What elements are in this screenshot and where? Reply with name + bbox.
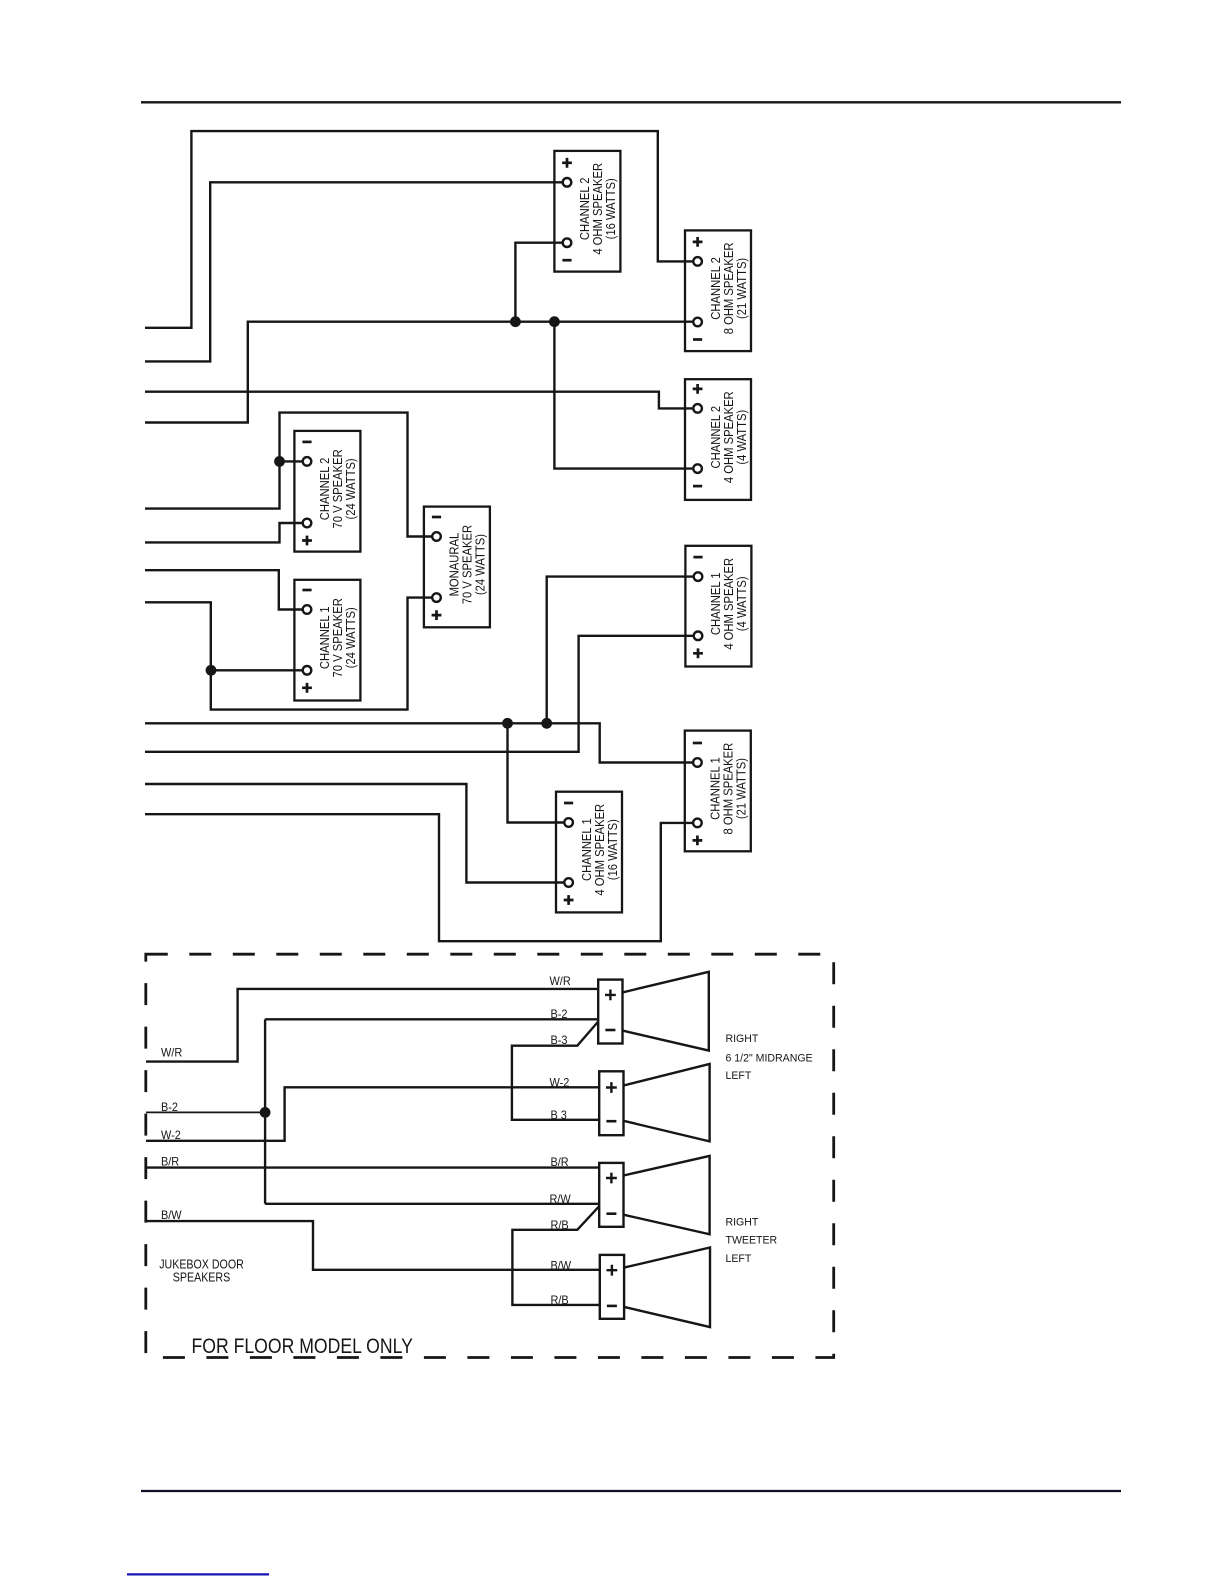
- terminals of speaker CHANNEL 1 4-ohm 16W: [564, 818, 573, 827]
- svg-text:B-2: B-2: [551, 1009, 568, 1021]
- svg-text:B/R: B/R: [551, 1157, 569, 1169]
- terminals of speaker CHANNEL 2 4-ohm 4W: [693, 404, 702, 413]
- speaker CHANNEL 2 4-ohm 16W: [554, 151, 620, 272]
- speaker CHANNEL 1 4-ohm 4W: [685, 546, 751, 667]
- svg-text:RIGHT: RIGHT: [726, 1033, 759, 1045]
- svg-text:LEFT: LEFT: [726, 1252, 752, 1264]
- svg-text:(24 WATTS): (24 WATTS): [343, 458, 358, 519]
- wire W8: amp out to MONAURAL + terminal: [145, 598, 437, 710]
- node J3: [274, 456, 285, 467]
- wire B/W to tweeter left +: [146, 1221, 600, 1270]
- node J5: [502, 718, 513, 729]
- speaker CHANNEL 1 70V 24W: [294, 580, 360, 701]
- svg-text:R/B: R/B: [551, 1220, 569, 1232]
- left wire labels: [161, 1047, 182, 1222]
- svg-text:B/R: B/R: [161, 1156, 179, 1168]
- svg-text:B/W: B/W: [551, 1260, 572, 1272]
- dashed enclosure FOR FLOOR MODEL ONLY: [146, 954, 834, 1357]
- wire B/R to tweeter right +: [146, 1166, 599, 1168]
- svg-text:W/R: W/R: [161, 1047, 182, 1059]
- terminals of speaker CHANNEL 1 70V 24W: [303, 605, 312, 614]
- wire W-2 to midrange left +: [146, 1087, 599, 1141]
- wire R/B link tweeter right - to tweeter left -: [512, 1205, 600, 1305]
- node J1: [510, 316, 521, 327]
- wire W5a: J3 branch to CH2 70V - terminal: [280, 460, 308, 462]
- svg-text:W/R: W/R: [550, 976, 571, 988]
- terminals of speaker CHANNEL 2 8-ohm 21W: [693, 257, 702, 266]
- svg-text:(24 WATTS): (24 WATTS): [473, 534, 488, 595]
- svg-text:W-2: W-2: [550, 1077, 570, 1089]
- svg-text:(24 WATTS): (24 WATTS): [343, 607, 358, 668]
- terminals of speaker CHANNEL 1 4-ohm 4W: [694, 572, 703, 581]
- speaker CHANNEL 1 8-ohm 21W: [685, 731, 751, 852]
- wire W7: amp out to CH1 70V - terminal: [145, 570, 307, 609]
- wire W/R to midrange right +: [146, 989, 598, 1062]
- svg-text:RIGHT: RIGHT: [726, 1216, 759, 1228]
- svg-text:(21 WATTS): (21 WATTS): [734, 758, 749, 819]
- wire W4: amp out to CH2 4W + terminal: [145, 392, 698, 409]
- wire W2: amp out to CH2 16W + terminal: [145, 182, 567, 361]
- wire R/W to tweeter right -: [265, 1203, 599, 1205]
- wire W10: amp out to CH1 4W + terminal: [145, 636, 698, 752]
- terminals of speaker MONAURAL 70V 24W: [432, 532, 441, 541]
- speaker position captions: [726, 1033, 813, 1265]
- svg-text:R/W: R/W: [550, 1194, 572, 1206]
- top horizontal rule: [141, 101, 1121, 103]
- wire W1: amp out to CH2 8-ohm + terminal: [145, 131, 698, 328]
- svg-text:(16 WATTS): (16 WATTS): [603, 178, 618, 239]
- wire B-2 to midrange right -: [265, 1018, 598, 1020]
- svg-text:TWEETER: TWEETER: [726, 1234, 778, 1246]
- wire W9a: J5 branch to CH1 16W - terminal: [508, 723, 569, 822]
- speaker CHANNEL 2 8-ohm 21W: [685, 230, 751, 351]
- wire W3: amp out to CH2 8-ohm - terminal: [145, 322, 698, 423]
- wire W3a: J1 branch to CH2 16W - terminal: [515, 243, 567, 322]
- wire W12: amp out to CH1 8-ohm + terminal: [145, 814, 697, 941]
- horn driver tweeter left: [600, 1248, 710, 1328]
- terminals of speaker CHANNEL 2 4-ohm 16W: [563, 178, 572, 187]
- bottom horizontal rule: [141, 1490, 1121, 1492]
- svg-text:R/B: R/B: [551, 1295, 569, 1307]
- wire W9b: J6 branch to CH1 4W - terminal: [547, 577, 698, 724]
- svg-text:6 1/2" MIDRANGE: 6 1/2" MIDRANGE: [726, 1052, 813, 1064]
- wire W11: amp out to CH1 16W + terminal: [145, 784, 569, 883]
- wire B-2 vertical riser: [264, 1019, 266, 1204]
- speaker CHANNEL 1 4-ohm 16W: [556, 792, 622, 913]
- horn driver midrange right: [598, 972, 709, 1051]
- svg-text:LEFT: LEFT: [726, 1069, 752, 1081]
- speaker CHANNEL 2 70V 24W: [294, 431, 360, 552]
- svg-text:SPEAKERS: SPEAKERS: [173, 1269, 230, 1284]
- footnote blue rule: [127, 1573, 269, 1575]
- wire B-3 link midrange right - to midrange left -: [512, 1021, 599, 1120]
- horn driver midrange left: [599, 1064, 709, 1142]
- node J4: [206, 665, 217, 676]
- svg-text:B-2: B-2: [161, 1102, 178, 1114]
- caption JUKEBOX DOOR SPEAKERS: [159, 1257, 244, 1285]
- wire W3b: J2 branch to CH2 4W - terminal: [554, 322, 697, 469]
- right wire labels: [550, 976, 572, 1307]
- wire B-2 left stub to J7: [146, 1111, 265, 1113]
- node J7: B-2 junction: [260, 1107, 271, 1118]
- speaker MONAURAL 70V 24W: [424, 507, 490, 628]
- wire W5: amp out loop to MONAURAL - terminal: [145, 413, 437, 537]
- svg-text:(21 WATTS): (21 WATTS): [734, 258, 749, 319]
- svg-text:B/W: B/W: [161, 1210, 182, 1222]
- speaker CHANNEL 2 4-ohm 4W: [685, 379, 751, 500]
- wire W8a: J4 branch to CH1 70V + terminal: [211, 669, 307, 671]
- terminals of speaker CHANNEL 1 8-ohm 21W: [693, 758, 702, 767]
- horn driver tweeter right: [599, 1156, 709, 1234]
- node J2: [549, 316, 560, 327]
- wire W6: amp out to CH2 70V + terminal: [145, 523, 307, 542]
- svg-text:(4 WATTS): (4 WATTS): [734, 410, 749, 465]
- svg-text:(16 WATTS): (16 WATTS): [605, 819, 620, 880]
- svg-text:(4 WATTS): (4 WATTS): [734, 576, 749, 631]
- svg-text:B 3: B 3: [551, 1110, 567, 1122]
- wire W9: amp out to CH1 8-ohm - terminal: [145, 723, 697, 762]
- terminals of speaker CHANNEL 2 70V 24W: [303, 457, 312, 466]
- node J6: [541, 718, 552, 729]
- svg-text:B-3: B-3: [551, 1035, 568, 1047]
- svg-text:W-2: W-2: [161, 1130, 181, 1142]
- svg-text:FOR FLOOR MODEL ONLY: FOR FLOOR MODEL ONLY: [192, 1334, 413, 1358]
